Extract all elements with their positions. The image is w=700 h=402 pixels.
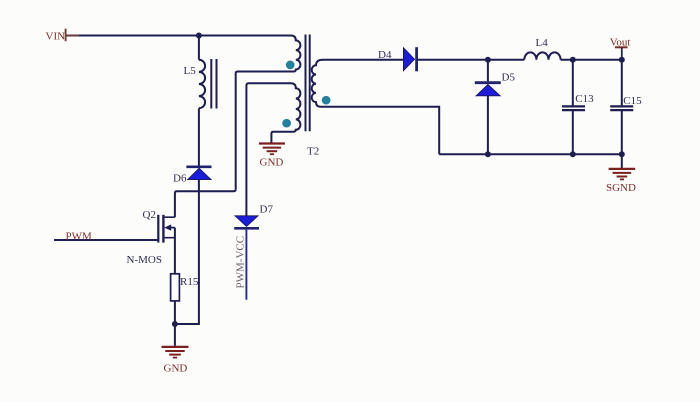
svg-text:VIN: VIN <box>46 30 66 42</box>
wire L4 to Vout <box>561 59 622 61</box>
capacitor C15 plates <box>610 106 633 110</box>
svg-text:T2: T2 <box>307 146 319 158</box>
diode D5 triangle <box>476 84 500 95</box>
Vout port bar <box>615 46 628 48</box>
Q2 arrow head <box>164 224 171 230</box>
transformer T2 aux winding (bottom-left) <box>246 83 300 216</box>
inductor L5 <box>199 60 205 108</box>
wire D6 anode down to ground node <box>175 180 199 325</box>
svg-text:L4: L4 <box>536 37 549 49</box>
inductor L4 <box>524 52 560 59</box>
svg-text:C15: C15 <box>623 95 642 107</box>
node VIN junction to L5 <box>198 36 200 60</box>
wire D5 branch vertical <box>487 60 489 155</box>
diode D7 triangle <box>235 216 258 227</box>
polarity dot primary <box>286 61 295 70</box>
transistor Q2 N-MOS symbol <box>158 215 175 243</box>
capacitor C13 plates <box>562 106 585 110</box>
wire PWM-VCC stub (blue) <box>245 230 247 300</box>
svg-text:PWM-VCC: PWM-VCC <box>235 236 247 289</box>
svg-text:D4: D4 <box>378 49 392 61</box>
wire L5 to D6 cathode <box>198 108 200 165</box>
wire C15 branch vertical <box>621 60 623 155</box>
svg-text:PWM: PWM <box>66 230 93 242</box>
wire ground stub GND2 <box>174 324 176 346</box>
ground SGND <box>609 169 636 180</box>
diode D4 cathode bar <box>415 47 418 71</box>
svg-text:L5: L5 <box>184 65 197 77</box>
ground GND2 (source resistor) <box>162 347 189 358</box>
diode D6 cathode bar <box>186 166 211 169</box>
junction node dots <box>172 33 625 328</box>
Vout port stub <box>621 47 623 59</box>
ground GND1 (transformer aux) <box>259 144 285 155</box>
svg-text:D7: D7 <box>260 204 274 216</box>
svg-text:R15: R15 <box>180 276 199 288</box>
svg-text:C13: C13 <box>575 93 594 105</box>
VIN port stub <box>66 35 79 37</box>
diode D4 triangle <box>403 48 414 71</box>
wire Q2 source to R15 <box>174 228 176 274</box>
svg-text:GND: GND <box>164 362 188 374</box>
L5 core bars <box>211 59 216 109</box>
svg-text:GND: GND <box>260 156 284 168</box>
VIN port bar <box>65 29 67 42</box>
polarity dot aux <box>282 119 291 128</box>
resistor R15 body <box>171 274 180 301</box>
wire bottom rail <box>439 153 622 155</box>
svg-text:N-MOS: N-MOS <box>127 254 162 266</box>
diode D5 cathode bar <box>475 81 501 84</box>
diode D6 triangle <box>188 168 212 179</box>
transformer T2 core bars <box>306 35 310 132</box>
wire D4 cathode to Vout node <box>418 59 524 61</box>
svg-text:Q2: Q2 <box>143 209 156 221</box>
wire R15 to ground node <box>174 301 176 324</box>
wire SGND stub <box>621 154 623 168</box>
polarity dot secondary <box>322 96 331 105</box>
svg-text:Vout: Vout <box>610 36 631 48</box>
wire primary to Q2 drain <box>175 189 236 217</box>
transformer T2 primary winding (top-left) <box>236 36 301 190</box>
wire PWM to gate <box>54 239 157 241</box>
transformer T2 secondary winding (right) <box>312 60 440 155</box>
wire C13 branch vertical <box>572 60 574 155</box>
diode D7 cathode bar <box>234 227 259 230</box>
svg-text:SGND: SGND <box>606 182 636 194</box>
wire VIN rail <box>66 35 291 37</box>
svg-text:D5: D5 <box>502 72 516 84</box>
svg-text:D6: D6 <box>173 173 187 185</box>
